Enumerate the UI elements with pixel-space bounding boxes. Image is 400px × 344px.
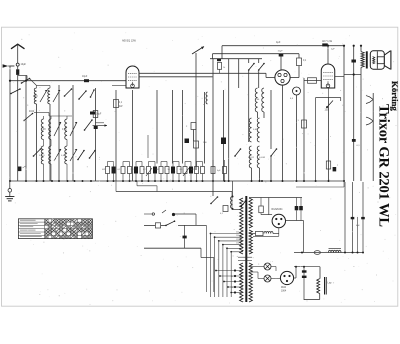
svg-text:10µF: 10µF bbox=[82, 76, 88, 78]
svg-text:RGN/1064: RGN/1064 bbox=[272, 209, 284, 211]
svg-text:4µF: 4µF bbox=[276, 41, 281, 44]
svg-text:0,98: 0,98 bbox=[41, 129, 46, 131]
svg-text:110: 110 bbox=[236, 243, 239, 245]
svg-text:10µF: 10µF bbox=[96, 114, 102, 116]
svg-text:1064: 1064 bbox=[281, 290, 287, 292]
svg-text:0,033: 0,033 bbox=[39, 155, 45, 157]
svg-text:0,0063: 0,0063 bbox=[259, 157, 266, 159]
svg-text:125: 125 bbox=[236, 239, 239, 241]
svg-text:4W: 4W bbox=[102, 169, 105, 171]
svg-text:AF7 1,9k: AF7 1,9k bbox=[322, 40, 333, 43]
svg-text:0,55: 0,55 bbox=[62, 129, 67, 131]
svg-text:150: 150 bbox=[236, 235, 239, 237]
svg-text:Trixor GR 2201 WL: Trixor GR 2201 WL bbox=[376, 104, 392, 227]
svg-text:RGN: RGN bbox=[281, 287, 286, 289]
svg-text:2W: 2W bbox=[131, 169, 134, 171]
svg-text:0,017: 0,017 bbox=[61, 155, 67, 157]
svg-text:10µF: 10µF bbox=[278, 51, 284, 53]
svg-text:0,98: 0,98 bbox=[33, 96, 38, 98]
svg-text:1W: 1W bbox=[156, 169, 159, 171]
svg-text:0,0012: 0,0012 bbox=[248, 157, 255, 159]
svg-text:AEI/3Q 12W: AEI/3Q 12W bbox=[122, 40, 137, 43]
svg-text:220: 220 bbox=[236, 232, 239, 234]
svg-text:Lsp: Lsp bbox=[328, 282, 333, 285]
svg-text:4042: 4042 bbox=[29, 111, 35, 113]
svg-text:10µF: 10µF bbox=[21, 63, 27, 66]
